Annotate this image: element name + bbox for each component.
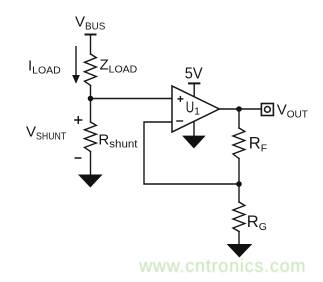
wire node B to RG xyxy=(238,184,240,202)
op-amp U1 xyxy=(172,86,219,132)
wire ZLOAD to node A xyxy=(90,85,92,98)
svg-text:5V: 5V xyxy=(185,65,203,82)
wire 5V to op-amp xyxy=(193,83,195,97)
arrow ILOAD xyxy=(73,46,79,83)
VSHUNT - polarity xyxy=(75,157,82,159)
svg-text:www.cntronics.com: www.cntronics.com xyxy=(138,256,306,276)
resistor ZLOAD xyxy=(85,54,97,85)
wire RG to ground xyxy=(238,232,240,245)
wire feedback from inverting input xyxy=(144,122,239,184)
ground (op-amp) xyxy=(182,136,206,149)
ground (Rshunt) xyxy=(78,175,103,188)
wire node A to Rshunt xyxy=(90,99,92,123)
wire op-amp to ground xyxy=(193,120,195,136)
wire VBUS to ZLOAD xyxy=(90,35,92,55)
VSHUNT + polarity xyxy=(74,116,82,158)
op-amp + input mark xyxy=(176,96,183,121)
node B junction xyxy=(236,181,242,187)
wire op-amp output xyxy=(219,108,261,110)
resistor Rshunt xyxy=(85,122,97,152)
node A junction xyxy=(88,96,94,102)
wire output node to RF xyxy=(238,109,240,128)
wire 5V bar xyxy=(189,82,199,84)
VOUT terminal symbol xyxy=(261,104,273,116)
resistor RG xyxy=(233,202,245,232)
wire node A to op-amp + input xyxy=(91,98,173,100)
op-amp - input mark xyxy=(176,120,183,122)
wire RF to node B xyxy=(238,159,240,185)
resistor RF xyxy=(233,128,245,159)
wire Rshunt to ground xyxy=(90,152,92,175)
ground (RG) xyxy=(227,244,253,258)
node VBUS terminal bar xyxy=(86,34,96,36)
node output junction xyxy=(236,106,242,112)
